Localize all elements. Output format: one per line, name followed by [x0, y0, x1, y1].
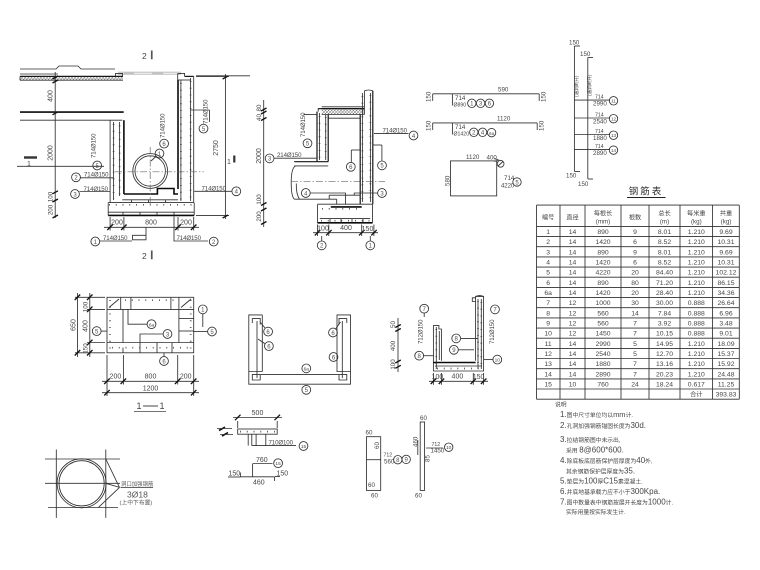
svg-text:14: 14 [569, 229, 577, 236]
label 10 right [493, 355, 502, 364]
svg-text:150: 150 [277, 470, 289, 477]
svg-text:400: 400 [390, 340, 397, 351]
svg-text:14: 14 [569, 249, 577, 256]
svg-text:(kg): (kg) [721, 218, 732, 225]
bottom dims of section [317, 225, 319, 237]
svg-text:6a: 6a [489, 131, 495, 136]
svg-text:(遇洞断开): (遇洞断开) [586, 74, 593, 96]
svg-text:20: 20 [631, 290, 639, 297]
svg-text:12: 12 [569, 310, 577, 317]
svg-text:14: 14 [569, 270, 577, 277]
bottom dims of 1-1 detail [106, 355, 108, 396]
svg-text:560: 560 [597, 310, 609, 317]
svg-text:14.95: 14.95 [656, 341, 673, 348]
gray existing band [118, 71, 181, 73]
footing [318, 203, 373, 205]
svg-text:400: 400 [340, 225, 352, 232]
bar 6 left vertical [256, 321, 258, 378]
label 1 below section [369, 236, 371, 241]
svg-text:1.210: 1.210 [688, 249, 705, 256]
svg-text:1420: 1420 [595, 239, 610, 246]
svg-text:1: 1 [227, 159, 231, 166]
svg-text:100: 100 [48, 191, 55, 202]
svg-text:7: 7 [546, 300, 550, 307]
svg-text:6: 6 [633, 239, 637, 246]
svg-text:8: 8 [546, 310, 550, 317]
svg-text:60: 60 [371, 493, 378, 500]
svg-text:(mm): (mm) [596, 218, 610, 225]
svg-text:0.617: 0.617 [688, 382, 705, 389]
svg-text:150: 150 [541, 91, 548, 102]
svg-text:150: 150 [566, 173, 577, 180]
ground line (existing, thin) [20, 66, 115, 69]
riser top wall [363, 91, 365, 115]
svg-text:15.37: 15.37 [717, 351, 734, 358]
svg-text:18.09: 18.09 [717, 341, 734, 348]
svg-text:150: 150 [539, 120, 546, 131]
corbel band under left wall [294, 161, 328, 163]
right dim 2750 [224, 74, 226, 219]
bar shape 1420 (bars 2,4,6a) [433, 122, 538, 124]
svg-text:2: 2 [142, 51, 147, 61]
svg-text:150: 150 [83, 343, 90, 354]
svg-text:9.01: 9.01 [719, 331, 732, 338]
top slab (hatched) [322, 109, 365, 115]
connector line from plan [196, 75, 250, 77]
svg-text:6.96: 6.96 [719, 310, 732, 317]
right wall of U (plan) [178, 73, 185, 76]
svg-text:714Ø150: 714Ø150 [91, 133, 98, 158]
svg-text:400: 400 [487, 154, 498, 161]
svg-text:7: 7 [633, 321, 637, 328]
svg-text:760: 760 [597, 382, 609, 389]
svg-text:1450: 1450 [595, 331, 610, 338]
svg-text:1880: 1880 [593, 135, 607, 142]
svg-text:150: 150 [362, 226, 374, 233]
svg-text:根数: 根数 [629, 213, 642, 221]
svg-text:14: 14 [569, 361, 577, 368]
svg-text:1.210: 1.210 [688, 371, 705, 378]
svg-text:710Ø100: 710Ø100 [269, 440, 294, 447]
svg-text:150: 150 [569, 40, 580, 47]
svg-text:14: 14 [569, 341, 577, 348]
svg-text:3.92: 3.92 [658, 321, 671, 328]
svg-text:712Ø150: 712Ø150 [418, 319, 425, 344]
svg-text:800: 800 [145, 220, 157, 227]
svg-text:14: 14 [544, 371, 552, 378]
svg-text:11: 11 [611, 99, 616, 104]
svg-text:714: 714 [455, 95, 466, 102]
svg-text:2000: 2000 [48, 145, 55, 161]
left dim of right U detail [397, 318, 399, 372]
table grid [537, 205, 740, 399]
svg-text:890: 890 [597, 280, 609, 287]
svg-text:10: 10 [446, 445, 452, 451]
svg-text:2: 2 [546, 239, 550, 246]
svg-text:12: 12 [569, 331, 577, 338]
pipe centerline [291, 181, 385, 183]
svg-text:40: 40 [256, 114, 263, 121]
svg-text:2750: 2750 [213, 140, 220, 156]
label 1 circle [155, 149, 164, 158]
svg-text:84.40: 84.40 [656, 270, 673, 277]
svg-text:1: 1 [160, 401, 165, 411]
svg-text:393.83: 393.83 [716, 392, 737, 399]
svg-text:80: 80 [631, 280, 639, 287]
svg-text:1000: 1000 [595, 300, 610, 307]
svg-text:10.15: 10.15 [656, 331, 673, 338]
svg-text:(上中下布置): (上中下布置) [120, 499, 153, 507]
bar 6 right hooks [339, 318, 347, 324]
svg-text:(遇洞断开): (遇洞断开) [573, 75, 580, 97]
svg-text:1.210: 1.210 [688, 270, 705, 277]
labels 7 left [420, 304, 429, 313]
svg-text:1.210: 1.210 [688, 280, 705, 287]
second wall band [20, 111, 124, 113]
top wall band hatched [20, 76, 123, 80]
svg-text:2990: 2990 [593, 101, 607, 108]
svg-text:60: 60 [368, 482, 375, 489]
svg-text:150: 150 [229, 470, 241, 477]
manhole circle [133, 154, 168, 189]
svg-text:每根长: 每根长 [594, 209, 613, 217]
svg-text:6: 6 [546, 280, 550, 287]
svg-text:10: 10 [495, 357, 501, 363]
svg-text:1450: 1450 [431, 448, 445, 455]
svg-text:60: 60 [366, 430, 373, 437]
svg-text:1200: 1200 [143, 385, 159, 392]
svg-text:400: 400 [48, 90, 55, 102]
svg-text:1.210: 1.210 [688, 290, 705, 297]
svg-text:0.888: 0.888 [688, 321, 705, 328]
label 2 bottom [209, 237, 218, 246]
svg-text:30: 30 [631, 300, 639, 307]
svg-text:12.70: 12.70 [656, 351, 673, 358]
left wall of U (plan) [109, 120, 111, 202]
svg-text:100: 100 [256, 194, 263, 205]
svg-text:15: 15 [275, 461, 281, 467]
svg-text:80: 80 [256, 104, 263, 111]
label 4 left on pipe [301, 189, 310, 198]
label 5 bracket right [373, 144, 382, 146]
svg-text:1: 1 [137, 401, 142, 411]
svg-text:9.69: 9.69 [719, 249, 732, 256]
svg-text:1.210: 1.210 [688, 341, 705, 348]
labels 7 right [491, 305, 500, 314]
svg-text:1880: 1880 [595, 361, 610, 368]
svg-text:760: 760 [256, 457, 268, 464]
svg-text:400: 400 [83, 320, 90, 332]
svg-text:钢筋表: 钢筋表 [629, 186, 664, 198]
svg-text:560: 560 [597, 321, 609, 328]
leader 5 left [92, 327, 101, 336]
svg-text:5: 5 [546, 270, 550, 277]
label 3 left [71, 190, 80, 199]
svg-text:10.31: 10.31 [717, 260, 734, 267]
left dim line of section [263, 100, 265, 227]
svg-text:14: 14 [569, 371, 577, 378]
bottom slab bands [108, 202, 194, 204]
svg-text:50: 50 [390, 321, 397, 328]
label 8 left [415, 351, 424, 360]
svg-text:1.210: 1.210 [688, 239, 705, 246]
svg-text:1.210: 1.210 [688, 351, 705, 358]
bottom dim 200 800 200 [109, 217, 111, 231]
svg-text:714: 714 [455, 124, 466, 131]
label 3 left of section [265, 154, 274, 163]
svg-text:30.00: 30.00 [656, 300, 673, 307]
U detail labels [261, 323, 266, 329]
svg-text:2540: 2540 [595, 351, 610, 358]
svg-text:1.210: 1.210 [688, 229, 705, 236]
svg-text:20: 20 [631, 270, 639, 277]
svg-text:10.31: 10.31 [717, 239, 734, 246]
svg-text:14: 14 [569, 280, 577, 287]
right wall of section [359, 115, 361, 205]
section cut mark left of plate [219, 427, 228, 436]
leader 3 [140, 334, 163, 343]
svg-text:(kg): (kg) [691, 218, 702, 225]
svg-text:11.25: 11.25 [718, 382, 735, 389]
leader 6a [128, 309, 147, 324]
svg-text:6: 6 [633, 260, 637, 267]
svg-text:85: 85 [425, 455, 432, 462]
svg-text:100: 100 [83, 301, 90, 312]
svg-text:890: 890 [597, 249, 609, 256]
svg-text:86.15: 86.15 [717, 280, 734, 287]
rung 11 [574, 99, 610, 101]
pipe [295, 198, 337, 200]
section mark 1 right [233, 156, 235, 163]
label 1 bottom [91, 237, 100, 246]
svg-text:7: 7 [633, 331, 637, 338]
svg-text:460: 460 [413, 436, 420, 447]
svg-text:合计: 合计 [690, 391, 702, 399]
svg-text:4220: 4220 [595, 270, 610, 277]
svg-text:3.48: 3.48 [719, 321, 732, 328]
svg-text:200: 200 [180, 374, 192, 381]
svg-text:28.40: 28.40 [656, 290, 673, 297]
left wall of section [318, 109, 322, 112]
svg-text:18.24: 18.24 [656, 382, 673, 389]
svg-text:15: 15 [544, 382, 552, 389]
svg-text:3Ø18: 3Ø18 [127, 490, 148, 500]
leader 6 bottom [163, 353, 165, 357]
svg-text:14: 14 [569, 351, 577, 358]
svg-text:102.12: 102.12 [716, 270, 737, 277]
svg-text:13: 13 [611, 133, 617, 138]
svg-text:14: 14 [611, 148, 617, 153]
label 2 below section [321, 236, 323, 241]
leader 5 right [194, 331, 208, 333]
svg-text:714Ø150: 714Ø150 [300, 112, 307, 137]
svg-text:712Ø150: 712Ø150 [489, 319, 496, 344]
svg-text:100: 100 [390, 359, 397, 370]
svg-text:洞口加强钢筋: 洞口加强钢筋 [121, 480, 154, 488]
svg-text:6a: 6a [544, 290, 552, 297]
svg-text:200: 200 [48, 204, 55, 215]
svg-text:15: 15 [301, 444, 307, 450]
svg-text:14: 14 [569, 260, 577, 267]
svg-text:200: 200 [180, 220, 192, 227]
svg-text:2990: 2990 [595, 341, 610, 348]
svg-text:6a: 6a [149, 322, 155, 328]
svg-text:200: 200 [256, 211, 263, 222]
svg-text:每米重: 每米重 [687, 209, 706, 217]
svg-text:5: 5 [633, 341, 637, 348]
svg-text:13: 13 [544, 361, 552, 368]
svg-text:13.16: 13.16 [656, 361, 673, 368]
svg-text:20.23: 20.23 [656, 371, 673, 378]
svg-text:24: 24 [631, 382, 639, 389]
svg-text:实际用量按实际发生计.: 实际用量按实际发生计. [566, 508, 626, 516]
svg-text:580: 580 [444, 175, 451, 186]
svg-text:34.36: 34.36 [717, 290, 734, 297]
svg-text:100: 100 [317, 225, 329, 232]
label 3 right [354, 192, 377, 194]
svg-text:2540: 2540 [593, 119, 607, 126]
top wall right lip [116, 73, 123, 76]
svg-text:2890: 2890 [593, 150, 607, 157]
bar 6 right vertical [341, 321, 343, 378]
svg-text:1.210: 1.210 [688, 260, 705, 267]
svg-text:7: 7 [633, 371, 637, 378]
svg-text:0.888: 0.888 [688, 331, 705, 338]
svg-text:1: 1 [546, 229, 550, 236]
svg-text:0.888: 0.888 [688, 310, 705, 317]
svg-text:71.20: 71.20 [656, 280, 673, 287]
bar 6 left hooks [252, 318, 260, 324]
svg-text:200: 200 [111, 220, 123, 227]
svg-text:9.69: 9.69 [719, 229, 732, 236]
svg-text:共重: 共重 [720, 209, 732, 217]
svg-text:总长: 总长 [658, 209, 670, 217]
bar 5 bottom horizontal [252, 374, 346, 376]
left dims of 1-1 detail [89, 293, 91, 357]
svg-text:714Ø150: 714Ø150 [203, 99, 210, 124]
svg-text:150: 150 [578, 181, 589, 188]
svg-text:650: 650 [70, 319, 77, 331]
svg-text:60: 60 [415, 493, 422, 500]
leader 1 [198, 305, 207, 314]
vertical wall-bars diagram [573, 46, 575, 172]
svg-text:直径: 直径 [566, 213, 578, 221]
svg-text:12: 12 [569, 321, 577, 328]
svg-text:(m): (m) [660, 218, 669, 225]
svg-text:460: 460 [253, 480, 265, 487]
svg-text:8.52: 8.52 [658, 239, 671, 246]
bar shape rect loop (bar 5) [451, 161, 497, 196]
svg-text:Ø890: Ø890 [454, 103, 467, 109]
svg-text:150: 150 [426, 91, 433, 102]
svg-text:3: 3 [546, 249, 550, 256]
svg-text:14: 14 [631, 310, 639, 317]
svg-text:12: 12 [544, 351, 552, 358]
svg-text:6a: 6a [304, 367, 310, 373]
svg-text:12: 12 [611, 117, 617, 122]
svg-text:1.210: 1.210 [688, 361, 705, 368]
rung 14 [574, 148, 610, 150]
svg-text:11: 11 [545, 341, 552, 348]
svg-text:12: 12 [569, 300, 577, 307]
svg-text:150: 150 [580, 51, 591, 58]
U interior bottom with sump step [124, 189, 178, 195]
svg-text:24.48: 24.48 [717, 371, 734, 378]
svg-text:1120: 1120 [497, 116, 511, 123]
svg-text:150: 150 [473, 374, 485, 381]
svg-text:10: 10 [569, 382, 577, 389]
svg-text:1: 1 [27, 161, 31, 168]
label 9 center [450, 345, 459, 354]
svg-text:编号: 编号 [542, 213, 554, 221]
section cut line 1-1 left [17, 165, 104, 167]
svg-text:150: 150 [426, 120, 433, 131]
rung 12 [574, 117, 610, 119]
centerlines of circle [115, 171, 204, 173]
step under pipe [336, 199, 338, 204]
svg-text:Ø1420: Ø1420 [454, 132, 470, 138]
svg-text:15.92: 15.92 [717, 361, 734, 368]
svg-text:9: 9 [633, 229, 637, 236]
svg-text:10: 10 [544, 331, 552, 338]
svg-text:2: 2 [142, 251, 147, 261]
svg-text:60: 60 [374, 442, 381, 449]
bottom dims of right U detail [432, 373, 434, 385]
label 6 bracket [351, 149, 360, 151]
svg-text:4: 4 [546, 260, 550, 267]
svg-text:100: 100 [432, 374, 444, 381]
svg-text:1120: 1120 [466, 154, 480, 161]
svg-text:5: 5 [633, 351, 637, 358]
svg-text:说明: 说明 [555, 401, 567, 409]
svg-text:800: 800 [145, 374, 157, 381]
bent bottom rebar [329, 194, 360, 196]
svg-text:9: 9 [633, 249, 637, 256]
label 2 left [72, 173, 81, 182]
label 8 center [452, 334, 461, 343]
svg-text:200: 200 [110, 374, 122, 381]
left dim line of plan [54, 72, 56, 218]
svg-text:8.52: 8.52 [658, 260, 671, 267]
svg-text:400: 400 [452, 373, 464, 380]
svg-text:8.01: 8.01 [658, 229, 671, 236]
svg-text:8.01: 8.01 [658, 249, 671, 256]
svg-text:9: 9 [546, 321, 550, 328]
svg-text:714Ø150: 714Ø150 [160, 113, 167, 138]
svg-text:1420: 1420 [595, 290, 610, 297]
svg-text:0.888: 0.888 [688, 300, 705, 307]
svg-text:2000: 2000 [256, 148, 263, 164]
svg-text:7: 7 [633, 361, 637, 368]
svg-text:60: 60 [420, 415, 427, 422]
svg-text:14: 14 [569, 239, 577, 246]
svg-text:590: 590 [498, 87, 509, 94]
svg-text:2890: 2890 [595, 371, 610, 378]
bar shape 890 (bars 1,3,6) [433, 93, 540, 95]
svg-text:890: 890 [597, 229, 609, 236]
rung 13 [574, 134, 610, 136]
svg-text:14: 14 [569, 290, 577, 297]
svg-text:26.64: 26.64 [717, 300, 734, 307]
svg-text:7.84: 7.84 [658, 310, 671, 317]
svg-text:500: 500 [252, 410, 264, 417]
svg-text:1420: 1420 [595, 260, 610, 267]
